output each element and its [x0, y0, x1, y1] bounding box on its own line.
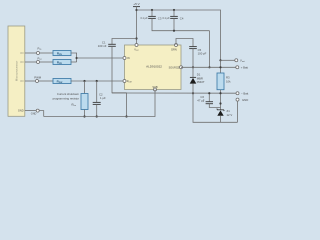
wire R_PD right	[71, 61, 77, 63]
svg-text:Microprocessor: Microprocessor	[14, 61, 18, 82]
wire +5V down to Vcc	[136, 7, 138, 45]
wire C5 bottom to OUT row	[192, 49, 194, 68]
junction C1 branch	[135, 37, 137, 39]
IC pin DRN	[175, 44, 178, 47]
IC pin IN	[123, 57, 126, 60]
resistor R_PD	[53, 60, 71, 65]
svg-text:1 µF: 1 µF	[100, 96, 106, 100]
svg-text:– Batt: – Batt	[241, 91, 249, 95]
IC pin OUT	[180, 66, 183, 69]
wire PWM row to IC pin2	[71, 80, 125, 82]
IC pin SUB	[154, 88, 157, 91]
diode D1 cathode bar	[190, 76, 196, 78]
svg-text:SOURCE: SOURCE	[169, 66, 180, 69]
wire uP GND pin	[25, 110, 36, 112]
resistor Rlim	[81, 94, 88, 110]
capacitor C3 plates	[148, 15, 156, 17]
svg-text:ALD910022: ALD910022	[146, 65, 162, 69]
wire C2 bottom lead	[96, 104, 98, 116]
svg-text:10k: 10k	[226, 79, 231, 83]
svg-text:GND: GND	[242, 98, 248, 102]
wire DRN up and right	[176, 39, 193, 47]
svg-text:GND: GND	[31, 113, 37, 116]
svg-text:0.1 µF: 0.1 µF	[140, 17, 148, 20]
zener Z1 triangle	[217, 110, 223, 115]
svg-text:RLIM: RLIM	[127, 80, 132, 83]
wire gnd drop left	[126, 93, 128, 117]
wire C1 down column	[112, 46, 127, 93]
resistor R3	[217, 73, 224, 90]
svg-text:47 µF: 47 µF	[197, 98, 204, 102]
junction C2-rail	[96, 115, 98, 117]
junction R_PU/R_PD	[76, 57, 78, 59]
diode D1 bottom lead	[193, 84, 238, 123]
svg-text:Vout: Vout	[240, 59, 245, 64]
svg-text:I/O: I/O	[20, 79, 23, 83]
wire C2 top lead	[96, 81, 98, 102]
svg-text:DRN: DRN	[171, 48, 177, 52]
capacitor C4 bottom lead	[173, 18, 175, 30]
capacitor C4 top lead	[173, 9, 175, 11]
svg-text:GND: GND	[18, 109, 24, 113]
wire node to R_PW	[39, 80, 53, 82]
svg-text:Current shutdown: Current shutdown	[57, 92, 80, 96]
wire R_PU right	[71, 53, 77, 62]
svg-text:+ Batt: + Batt	[241, 66, 249, 70]
terminal Vout	[235, 59, 238, 62]
svg-text:0.1 µF: 0.1 µF	[162, 17, 170, 20]
capacitor C6 plates	[206, 101, 213, 103]
node P2 open circle	[37, 61, 40, 64]
junction top rail	[135, 9, 137, 11]
capacitor C3 top lead	[151, 9, 153, 11]
resistor R_PW	[53, 79, 71, 84]
junction gnd drop/rail	[125, 115, 127, 117]
wire -Batt row	[112, 92, 236, 94]
junction C5/out row	[192, 66, 194, 68]
junction Rlim-rail	[83, 115, 85, 117]
capacitor C2 plates	[93, 101, 101, 103]
IC U1 body	[125, 45, 182, 90]
terminal GND	[236, 98, 239, 101]
capacitor C4 plates	[170, 15, 178, 17]
node PWM open circle	[36, 80, 39, 83]
junction R3/-Batt row	[219, 92, 221, 94]
wire GND step to rail	[39, 111, 43, 117]
terminal -Batt	[236, 92, 239, 95]
svg-text:C4: C4	[180, 16, 184, 20]
wire uP pin2 to node circle	[25, 61, 36, 63]
IC pin RLIM	[123, 80, 126, 83]
svg-text:100 pF: 100 pF	[198, 52, 207, 56]
terminal +Batt	[236, 66, 239, 69]
wire top rail	[137, 10, 221, 60]
capacitor C1 plates	[108, 43, 116, 45]
uP GND node circle	[36, 109, 39, 112]
svg-text:I/O: I/O	[20, 51, 23, 55]
svg-text:programming resistor: programming resistor	[53, 96, 79, 100]
wire Rlim top lead	[84, 81, 86, 94]
wire OUT row	[181, 66, 236, 68]
diode D1 top lead	[192, 67, 194, 77]
wire Vout branch	[219, 59, 221, 61]
microprocessor U2 body	[8, 26, 25, 116]
IC pin Vcc	[135, 44, 138, 47]
svg-text:C3: C3	[158, 16, 162, 20]
wire uP pin3 to node circle	[25, 80, 35, 82]
power +5V bar	[133, 6, 140, 8]
wire Rlim bottom lead	[84, 110, 86, 117]
zener Z1 bottom lead	[220, 116, 222, 123]
wire IN row to IC pin	[77, 57, 125, 59]
junction C2 branch	[96, 80, 98, 82]
wire GND terminal down to right rail	[237, 101, 239, 122]
junction cap rail / out row	[208, 66, 210, 68]
svg-text:P11: P11	[38, 47, 43, 51]
svg-text:SUB: SUB	[152, 85, 158, 89]
svg-text:0540T: 0540T	[197, 80, 205, 84]
capacitor C5 plates	[189, 46, 197, 48]
junction Rlim branch	[83, 80, 85, 82]
junction zener node	[219, 102, 221, 104]
junction D1/-Batt row	[192, 92, 194, 94]
svg-text:+5 V: +5 V	[133, 2, 140, 6]
junction C4 gnd rail	[173, 30, 175, 32]
wire SUB down	[44, 90, 155, 117]
svg-text:Rlim: Rlim	[71, 103, 76, 108]
capacitor C3 bottom lead	[152, 18, 210, 30]
junction C6 top	[208, 92, 210, 94]
wire uP pin1 to node circle	[25, 52, 36, 54]
zener Z1 cathode bar	[217, 109, 224, 111]
wire node to R_PU	[40, 52, 53, 54]
junction out row crossing	[219, 66, 221, 68]
diode D1 triangle	[190, 78, 197, 84]
wire cap gnd rail down to out row	[209, 31, 211, 68]
wire R3 bottom	[220, 90, 222, 110]
svg-text:P12: P12	[38, 57, 43, 61]
svg-text:IN: IN	[127, 56, 130, 60]
capacitor C6 top lead	[208, 93, 210, 102]
wire C6 bottom L to zener column	[209, 104, 220, 108]
node P1 open circle	[37, 52, 40, 55]
wire node to R_PD	[40, 61, 53, 63]
svg-text:12 V: 12 V	[227, 113, 233, 117]
wire +5V column down through out row	[220, 60, 222, 73]
resistor R_PU	[53, 51, 71, 56]
svg-text:I/O: I/O	[20, 60, 23, 64]
svg-text:PWM: PWM	[34, 76, 42, 80]
svg-text:100 nF: 100 nF	[98, 44, 107, 48]
wire C1 branch left	[112, 39, 137, 45]
